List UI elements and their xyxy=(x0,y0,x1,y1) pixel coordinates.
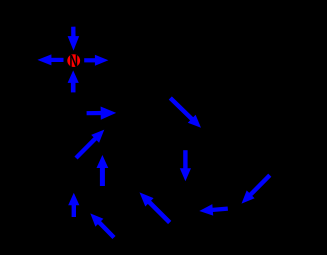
arrow up into node N from below xyxy=(68,70,79,92)
arrow diagonal up-left long xyxy=(140,192,170,222)
arrow left out of node N xyxy=(37,54,63,65)
arrow up at x102 xyxy=(97,155,109,186)
arrow down into node N from above xyxy=(68,27,80,51)
arrow diagonal down-right upper xyxy=(170,98,201,128)
arrow diagonal up-right lower-left xyxy=(76,130,104,158)
arrow down at x185 xyxy=(180,150,191,181)
short arrow right at mid-left xyxy=(87,107,117,120)
arrow diagonal down-left right xyxy=(242,175,270,203)
arrow diagonal up-left small xyxy=(90,213,114,237)
arrow right out of node N xyxy=(84,55,108,66)
node N (red circle with letter N) xyxy=(67,53,80,71)
arrow left horizontal bottom-mid xyxy=(199,204,228,216)
arrow up at x74 bottom xyxy=(68,193,79,217)
svg-text:N: N xyxy=(69,53,78,71)
